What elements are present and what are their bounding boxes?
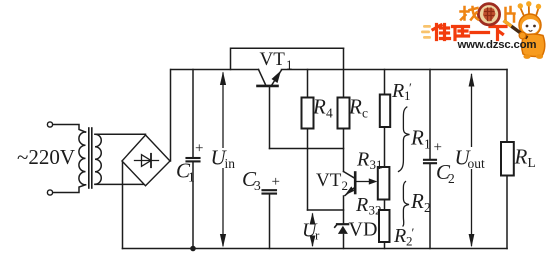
wire base node horizontal: [270, 148, 344, 150]
svg-text:′: ′: [412, 225, 415, 240]
wire VT1 base lead down: [269, 87, 271, 149]
transformer core: [89, 128, 92, 188]
wire bridge positive lead up to top rail: [170, 70, 172, 162]
svg-text:4: 4: [326, 106, 333, 121]
svg-text:1: 1: [424, 137, 431, 152]
junction dot C1 ground: [190, 246, 196, 252]
logo chip drawing inside magnifier: [483, 8, 496, 22]
wire VT1 collector bypass to Rc top: [231, 48, 344, 69]
transistor VT2: [344, 172, 356, 196]
label R2prime: [393, 225, 415, 249]
transistor VT1: [258, 70, 282, 86]
diode inside bridge: [135, 154, 159, 167]
svg-text:R: R: [355, 194, 368, 216]
brace R2: [403, 182, 409, 227]
label C3: [242, 167, 261, 193]
label VT2: [316, 170, 348, 193]
svg-text:VT: VT: [316, 170, 342, 191]
svg-text:2: 2: [424, 200, 431, 215]
label R31: [356, 149, 383, 173]
svg-text:c: c: [362, 106, 368, 121]
svg-text:VD: VD: [349, 219, 378, 241]
label R1prime: [391, 80, 412, 103]
wire bridge negative lead down to ground rail: [122, 161, 124, 249]
wire top rail right of VT1 (output rail): [282, 69, 508, 71]
capacitor C1 plates: [187, 158, 200, 161]
label Uin: [210, 146, 237, 172]
svg-text:+: +: [434, 140, 442, 156]
resistor RL: [501, 142, 514, 176]
svg-text:+: +: [195, 141, 203, 157]
wire bottom ground rail: [123, 248, 508, 250]
svg-text:31: 31: [370, 157, 383, 172]
logo magnifier circle: [478, 4, 499, 25]
svg-text:R: R: [348, 95, 362, 119]
wire C2 branch: [429, 70, 431, 159]
label VT1: [260, 49, 293, 72]
label R2: [410, 189, 431, 215]
label C1: [176, 159, 195, 185]
wire VT2 emitter to zener: [343, 196, 345, 224]
svg-text:out: out: [468, 156, 486, 171]
svg-text:~220V: ~220V: [17, 145, 75, 169]
logo speed dashes: [421, 25, 431, 39]
logo mascot head: [519, 14, 541, 36]
svg-text:R: R: [356, 149, 369, 171]
resistor Rc: [338, 98, 350, 129]
resistor R4: [302, 98, 314, 129]
capacitor C3 plates: [263, 190, 277, 193]
label Uout: [454, 146, 486, 172]
wire reference node to zener top: [308, 209, 344, 211]
svg-text:2: 2: [342, 178, 349, 193]
label R32: [355, 194, 382, 218]
resistor R2prime: [379, 210, 390, 242]
resistor R1prime: [380, 95, 390, 128]
potentiometer R31 R32 body: [378, 167, 390, 200]
svg-text:R: R: [393, 225, 406, 247]
wire RL branch: [506, 70, 508, 249]
arrow Uout measurement: [471, 75, 473, 246]
svg-text:R: R: [391, 80, 404, 102]
logo mascot arm and pen: [505, 22, 526, 38]
transformer primary winding: [53, 125, 86, 193]
logo char zhao: [461, 7, 479, 20]
brace R1: [399, 107, 410, 172]
svg-text:R: R: [312, 95, 326, 119]
arrow Uin measurement: [222, 73, 224, 246]
svg-text:1: 1: [188, 170, 195, 185]
wire R4 branch down to reference node: [307, 70, 309, 211]
label RL: [514, 145, 536, 171]
wire Rc branch down through rect to VT2 collector: [343, 48, 345, 171]
terminal input top: [47, 122, 52, 127]
svg-text:R: R: [410, 126, 424, 150]
svg-text:3: 3: [254, 178, 261, 193]
label Rc: [348, 95, 368, 121]
label R1: [410, 126, 431, 152]
potentiometer wiper arrow: [357, 181, 372, 183]
capacitor C2 plates: [424, 160, 436, 163]
wire zener to ground rail: [343, 235, 345, 249]
wire C1 branch: [192, 70, 194, 158]
label R4: [312, 95, 333, 121]
wire top rail left of VT1: [171, 69, 259, 71]
wire sampling divider branch: [384, 70, 386, 249]
arrow heads Ur: [310, 213, 316, 225]
logo mascot antennas: [521, 5, 539, 16]
svg-text:R: R: [514, 145, 528, 169]
logo char pian: [506, 7, 515, 22]
terminal input bottom: [47, 190, 52, 195]
svg-text:′: ′: [409, 80, 412, 95]
svg-text:2: 2: [448, 171, 455, 186]
svg-text:r: r: [315, 228, 320, 243]
zener diode VD: [337, 223, 348, 225]
transformer secondary winding: [95, 134, 146, 184]
svg-text:VT: VT: [260, 49, 286, 70]
logo mascot body: [522, 34, 545, 56]
svg-text:www.dzsc.com: www.dzsc.com: [457, 39, 537, 51]
label Ur: [301, 220, 320, 243]
svg-text:L: L: [528, 155, 536, 170]
arrow Ur measurement: [312, 214, 314, 246]
logo red text weiku yixia: [433, 25, 506, 40]
svg-text:in: in: [225, 156, 236, 171]
svg-text:+: +: [272, 174, 280, 190]
svg-text:1: 1: [286, 57, 293, 72]
label C2: [436, 160, 455, 186]
bridge rectifier diamond: [122, 135, 170, 186]
wire C3 lower lead: [269, 195, 271, 249]
svg-text:R: R: [410, 189, 424, 213]
